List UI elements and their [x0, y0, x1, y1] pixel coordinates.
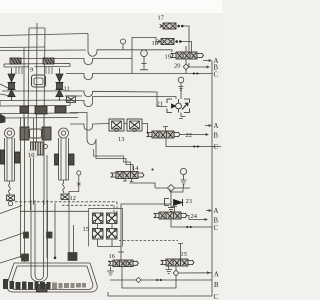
wire riser x132 to valve 18 feed	[132, 38, 159, 74]
valve box 12	[61, 194, 69, 200]
cylinder left hose wavy	[8, 181, 10, 195]
label 10	[28, 151, 38, 160]
wire G3 A arrow	[206, 209, 211, 211]
wire L4 to gauge/valve21 with hose loop	[2, 91, 167, 107]
wire valve16 bottom loop	[122, 267, 176, 288]
wire G4 B long line	[110, 279, 212, 281]
bracket above valve 23	[170, 189, 183, 193]
pipe clamp feet	[22, 253, 78, 262]
wire double feed lines left	[0, 47, 86, 51]
top beam	[4, 64, 70, 68]
valve 17	[160, 23, 177, 29]
left spool chain	[8, 68, 16, 101]
collar lower	[30, 129, 42, 138]
cross beam wire y211	[20, 210, 89, 212]
wire y204 from valve23 string to left riser	[121, 204, 171, 260]
svg-text:13: 13	[118, 136, 124, 143]
wires linking group 15	[98, 224, 122, 247]
svg-text:19: 19	[165, 54, 171, 61]
valve 16 directional	[108, 260, 139, 267]
wire valve18 to riser	[182, 42, 192, 53]
valve 24 pilot T	[172, 207, 177, 213]
svg-text:11: 11	[64, 86, 70, 93]
valve 21 reducing	[167, 99, 190, 113]
wire L2 + hose loop	[19, 59, 132, 65]
wire G1 B from valve	[189, 63, 209, 68]
gauge small on right cylinder	[77, 171, 81, 175]
svg-text:22: 22	[186, 132, 192, 139]
dot node right of 14	[152, 169, 154, 171]
vertical wire x55	[54, 203, 56, 257]
wire down to valve 23	[170, 192, 172, 199]
double arrowheads on C line G1	[193, 72, 200, 74]
cylinder right body	[59, 138, 69, 180]
cylinder right hose wavy	[63, 180, 65, 193]
pipe clamps upper	[24, 232, 53, 238]
valve 23 check	[165, 198, 183, 211]
svg-text:10: 10	[28, 152, 34, 159]
wire from valve14 to diamond line	[130, 183, 156, 188]
dark speckle band in pan	[3, 279, 51, 290]
cylinder left body	[5, 138, 15, 181]
svg-text:21: 21	[157, 101, 163, 108]
wire L6 with hose loop down to valve 14	[70, 113, 133, 172]
wire G4 C bottom line	[108, 292, 212, 296]
svg-text:23: 23	[186, 198, 192, 205]
cylinder right pads	[55, 154, 75, 165]
valve 16 tank	[107, 267, 114, 275]
wire into valve 19 pilot	[185, 46, 187, 52]
node diamond at 171,188	[168, 185, 175, 192]
svg-text:9: 9	[30, 67, 33, 74]
valve 18	[158, 39, 175, 45]
paper background	[0, 0, 222, 300]
wire G2 A arrow	[205, 124, 211, 126]
wire G4 A	[179, 272, 212, 274]
valve 14 directional	[111, 172, 145, 179]
wire valve17 to riser	[184, 26, 189, 52]
svg-text:18: 18	[152, 40, 158, 47]
svg-text:15: 15	[181, 251, 187, 258]
node 20 diamond	[183, 64, 189, 70]
valve 24 directional	[154, 212, 188, 219]
valve group 13 box b	[127, 119, 142, 131]
right guide rail	[69, 196, 74, 253]
node diamond below 15b	[173, 266, 179, 276]
valve 15b tank	[166, 266, 173, 274]
svg-text:A: A	[214, 208, 219, 215]
light speckle band in pan	[52, 283, 86, 290]
base pan outer	[7, 263, 97, 292]
bearing hangers	[16, 67, 52, 74]
gauge 3	[180, 168, 186, 174]
svg-text:C: C	[214, 144, 219, 151]
bottom right valve 15b pilot T	[178, 244, 183, 260]
svg-text:B: B	[214, 133, 219, 140]
valve 14 drains	[123, 179, 133, 182]
cylinder left pads	[1, 150, 20, 164]
frame around group 15	[89, 209, 123, 247]
leader diagonals lower left	[0, 206, 26, 264]
dashed pilot to right valve	[119, 240, 178, 242]
label 9	[29, 66, 35, 74]
svg-text:20: 20	[174, 63, 180, 70]
platform mid	[0, 100, 70, 106]
svg-text:C: C	[214, 72, 219, 79]
cylinder left cap circle	[5, 128, 15, 138]
svg-text:16: 16	[109, 253, 115, 260]
wire G1 A arrow	[203, 59, 211, 61]
valve 21 drain	[179, 113, 186, 119]
wire L5 with hose loop	[65, 96, 176, 107]
collar on mast	[32, 75, 46, 87]
valve 19 directional	[171, 52, 204, 59]
wire L3 to C-line G1 with hose loop	[66, 74, 212, 80]
svg-text:12: 12	[70, 195, 76, 202]
wire G2 B from valve 22	[180, 133, 209, 135]
feed blocks beside mast	[20, 127, 51, 140]
svg-text:17: 17	[158, 15, 165, 22]
gauge 25 on L1 line	[121, 39, 126, 44]
dashed control lines	[15, 201, 117, 203]
valve 22 pilot T	[163, 127, 168, 132]
svg-text:15: 15	[83, 226, 89, 233]
main right bus	[211, 61, 213, 297]
base pan inner	[11, 266, 93, 290]
svg-text:A: A	[214, 272, 219, 279]
wire top horizontal from left edge	[0, 34, 88, 36]
wire G3 C line	[171, 219, 212, 227]
svg-text:B: B	[214, 218, 219, 225]
svg-text:B: B	[214, 65, 219, 72]
chuck block	[31, 142, 44, 155]
svg-text:A: A	[214, 123, 219, 130]
wire valve23 to valve24	[170, 210, 172, 213]
svg-text:C: C	[214, 294, 219, 300]
leader diagonals upper left	[0, 84, 8, 96]
bearing block right	[43, 58, 54, 64]
svg-text:24: 24	[191, 213, 198, 220]
dark wedge left edge	[0, 114, 5, 123]
dark blocks under platform	[20, 106, 66, 114]
wire L1 down + hose loop + run to riser	[88, 34, 172, 57]
valve box left small	[7, 195, 15, 201]
wire junction line y188	[155, 184, 190, 188]
bearing block left	[10, 58, 21, 64]
valve group 15 quad	[93, 213, 118, 239]
svg-text:C: C	[214, 225, 219, 232]
pipe bottom cap	[37, 285, 48, 293]
valve 15b directional	[161, 259, 195, 266]
wire feed to valve 16 with T	[118, 251, 124, 253]
gauge 2 on valve21 feed	[178, 77, 184, 83]
wire L7 with hose loop to valve group 13	[70, 124, 109, 131]
valve 22 directional	[147, 131, 181, 138]
tower verticals	[21, 118, 48, 262]
svg-text:B: B	[214, 282, 219, 289]
right spool chain	[56, 68, 64, 101]
cylinder right cap circle	[59, 128, 69, 138]
svg-text:14: 14	[132, 165, 139, 172]
valve group 13 box a	[109, 119, 124, 131]
mast cap	[24, 23, 45, 142]
test point gauge 1	[141, 50, 148, 57]
wire G2 C line	[166, 138, 221, 147]
wire 13 interlink and to valve 22	[124, 124, 148, 135]
drill pipe	[31, 200, 48, 282]
wire L6 parallel duct line	[94, 149, 131, 172]
small circle on chuck	[44, 145, 48, 149]
drain circle left	[8, 201, 12, 205]
component 11 box	[67, 96, 76, 103]
wire G3 B from valve 24	[186, 216, 207, 221]
platform lower	[0, 113, 78, 118]
